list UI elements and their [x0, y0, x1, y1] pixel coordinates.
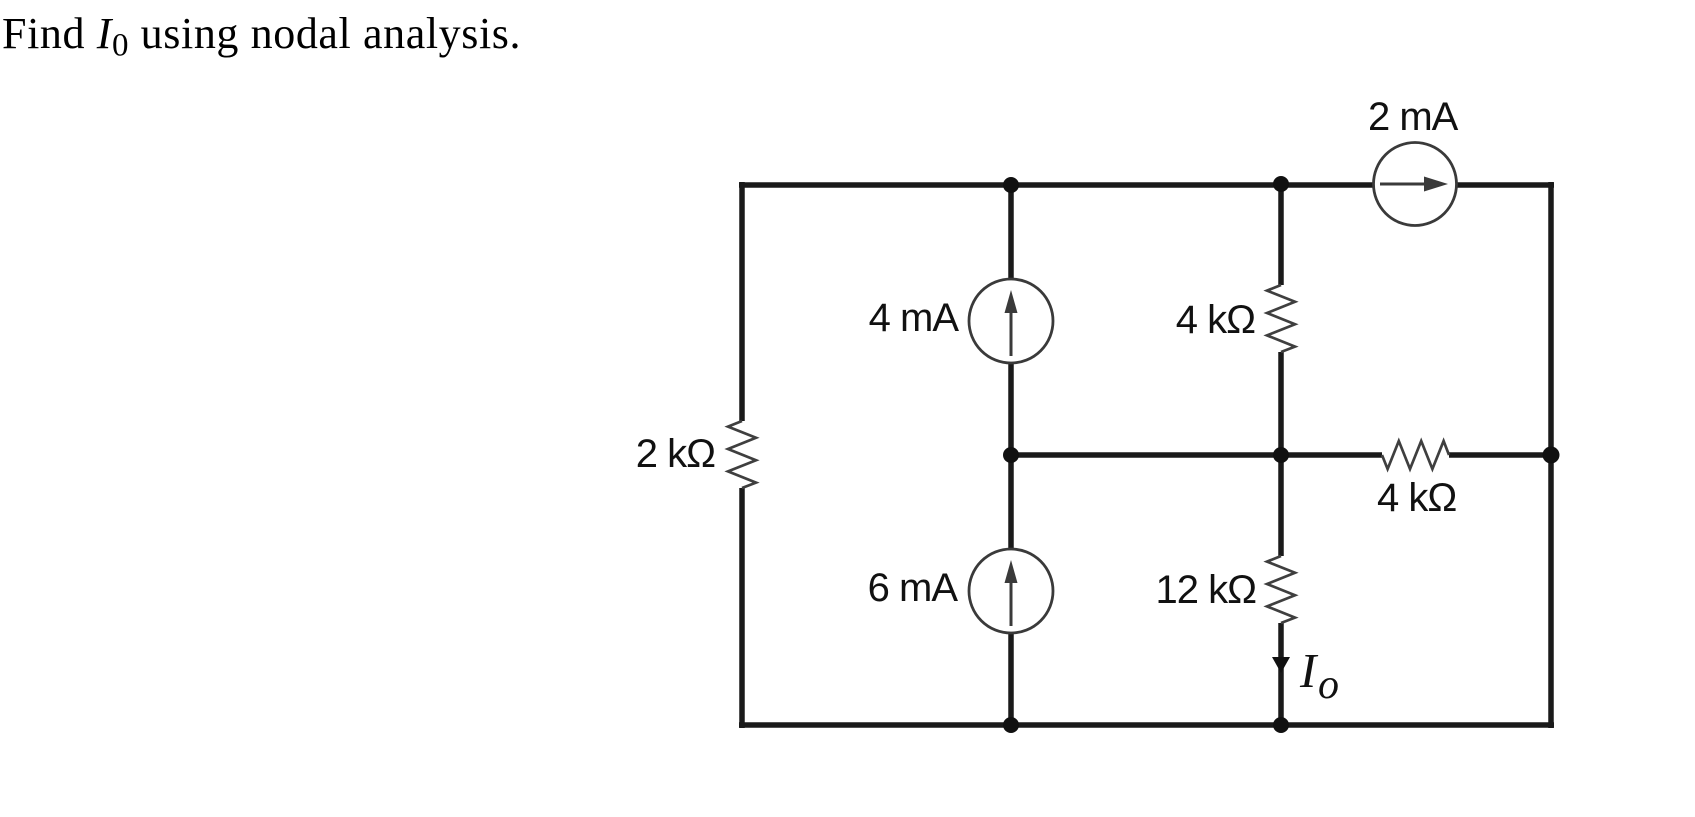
wire: bottom wire: [739, 722, 1554, 728]
current source 6 mA (circle): [969, 549, 1053, 633]
svg-text:2 mA: 2 mA: [1368, 95, 1459, 139]
wire: left outer wire lower segment (below 2k resistor): [739, 488, 745, 728]
current source 6 mA arrow (up): [1010, 578, 1013, 626]
node dot: bottom node at first vertical wire: [1003, 717, 1019, 733]
wire: middle horizontal wire right segment (4k resistor to right wire): [1449, 452, 1553, 458]
svg-text:4 kΩ: 4 kΩ: [1176, 298, 1255, 342]
current source 2 mA (circle on top wire): [1374, 143, 1457, 226]
wire: second vertical wire lower segment (12k resistor to bottom): [1278, 623, 1284, 725]
svg-text:Find I0 using nodal analysis.: Find I0 using nodal analysis.: [2, 9, 521, 64]
node dot: top node at second vertical wire: [1273, 176, 1289, 192]
svg-text:2 kΩ: 2 kΩ: [636, 432, 715, 476]
node dot: middle node at first vertical wire: [1003, 447, 1019, 463]
wire: second vertical wire middle segment (4k resistor to 12k resistor): [1278, 352, 1284, 556]
wire: left outer wire upper segment (above 2k resistor): [739, 182, 745, 421]
svg-text:4 kΩ: 4 kΩ: [1377, 476, 1456, 520]
wire: second vertical wire upper segment (top node to 4k resistor): [1278, 185, 1284, 285]
svg-text:4 mA: 4 mA: [869, 296, 960, 340]
svg-text:o: o: [1318, 662, 1339, 708]
arrow I0 (down arrow on 12k branch): [1272, 657, 1290, 673]
current source 4 mA (circle): [969, 279, 1053, 363]
node dot: middle node at second vertical wire: [1273, 447, 1289, 463]
wire: right outer wire: [1548, 182, 1554, 728]
svg-text:12 kΩ: 12 kΩ: [1155, 568, 1256, 612]
svg-text:I: I: [1299, 643, 1319, 698]
node dot: bottom node at second vertical wire: [1273, 717, 1289, 733]
node dot: middle node at right wire: [1543, 447, 1560, 464]
wire: middle horizontal wire left segment (to horizontal 4k resistor): [1011, 452, 1382, 458]
current source 2 mA arrow (right): [1380, 183, 1428, 186]
node dot: top node at first vertical wire: [1003, 177, 1019, 193]
current source 4 mA arrow (up): [1010, 308, 1013, 356]
resistor R 12k (lower right branch zigzag): [1267, 556, 1295, 623]
resistor R 4k horizontal (middle wire zigzag): [1382, 441, 1449, 469]
wire: top wire from top-left corner to top-right corner: [739, 182, 1554, 188]
wire: middle vertical wire through current sources (node 1 to bottom): [1008, 185, 1014, 725]
resistor R 2k (left, vertical zigzag): [728, 421, 756, 488]
resistor R 4k vertical (upper right branch zigzag): [1267, 285, 1295, 352]
svg-text:6 mA: 6 mA: [868, 566, 959, 610]
